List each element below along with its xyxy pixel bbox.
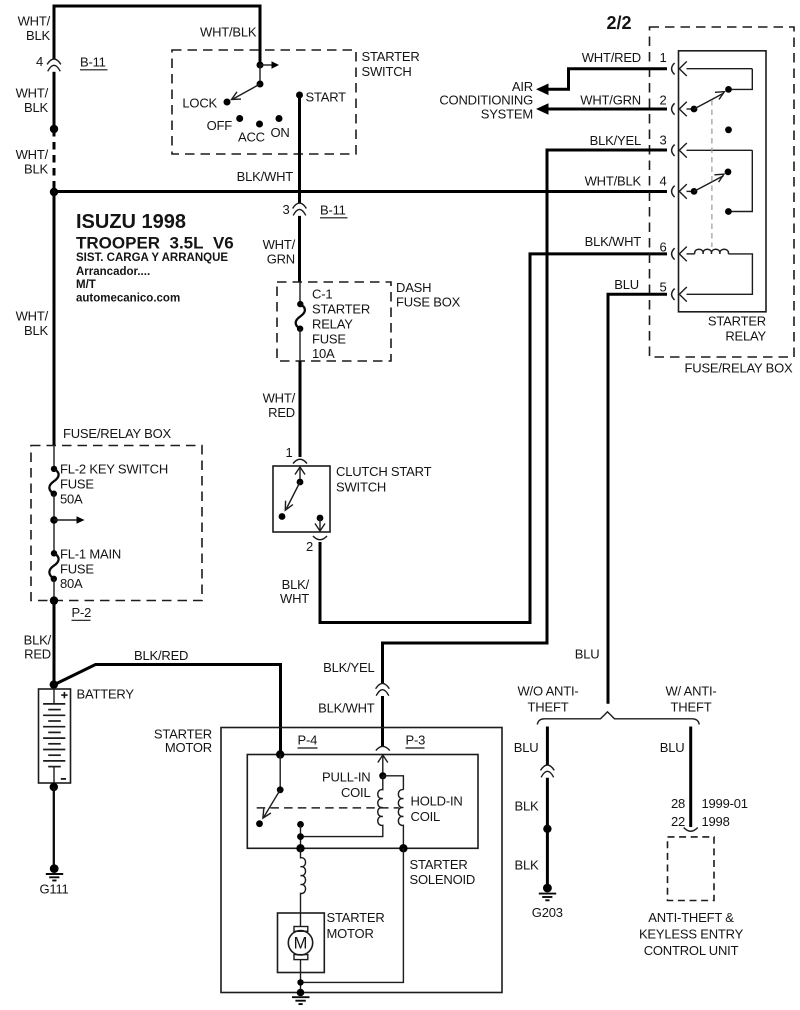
pull-in coil [301,776,383,837]
branch junction dot [50,516,58,524]
relay open contact dot (switch 1) [725,126,732,133]
pin 2 terminal [672,102,687,117]
svg-text:ISUZU 1998: ISUZU 1998 [76,211,186,233]
svg-text:WHT/GRN: WHT/GRN [263,237,296,267]
svg-text:P-4: P-4 [298,733,318,748]
solenoid return wire [301,848,404,982]
connector BLU to BLK (double-arc) [541,765,555,777]
svg-text:1: 1 [659,50,666,65]
fuse C-1 top dot [297,301,303,307]
wire WHT/BLK below connector [53,72,56,129]
connector B-11 pin 3 (double-arc) [293,203,307,215]
svg-text:automecanico.com: automecanico.com [76,293,180,305]
wire WHT/BLK main horizontal to relay pin 4 [54,190,667,193]
ground G203 symbol [539,884,556,901]
relay pin 1 internal circuit [687,68,753,70]
motor M circle [288,931,312,955]
pin 1 terminal [672,61,687,76]
svg-text:BLU: BLU [660,740,685,755]
svg-text:OFF: OFF [207,118,233,133]
fusible link FL-1 bottom dot [51,576,57,582]
svg-text:1999-01: 1999-01 [702,796,748,811]
relay switch 2 common dot [691,188,698,195]
wire WHT/RED from relay pin 1 to A/C [548,69,667,90]
svg-text:BLK/RED: BLK/RED [134,648,188,663]
relay contact dot (pin 3) [725,208,732,215]
battery bottom junction dot [50,783,58,791]
contact OFF dot [236,115,243,122]
svg-text:5: 5 [659,280,666,295]
svg-text:WHT/GRN: WHT/GRN [580,93,641,108]
hold-in coil feed [383,776,404,790]
svg-text:2: 2 [659,93,666,108]
svg-text:BLK: BLK [515,858,540,873]
motor brush top [294,927,308,932]
solenoid inner box [247,755,478,849]
solenoid switch pivot dot [277,786,284,793]
battery box [39,689,71,783]
svg-text:FUSE/RELAY BOX: FUSE/RELAY BOX [63,426,172,441]
fuse C-1 bottom dot [297,326,303,332]
relay switch 1 common dot [691,106,698,113]
wire BLU w/ anti-theft branch [689,727,692,828]
svg-text:B-11: B-11 [80,55,106,70]
svg-text:WHT/BLK: WHT/BLK [200,25,257,40]
contact START dot [296,92,303,99]
motor brush bottom [294,955,308,960]
svg-text:M/T: M/T [76,279,96,291]
relay switch 2 arm arrow [694,174,724,191]
solenoid contact dot upper [297,821,304,828]
svg-text:BLK/WHT: BLK/WHT [280,577,310,606]
anti-theft control unit dashed box [668,837,715,901]
wire inside fuse box lower [299,329,301,361]
clutch bottom female cup [313,536,327,540]
starter motor outer box [221,728,502,993]
relay open contact dot (switch 2) [725,169,732,176]
svg-text:ON: ON [271,125,290,140]
svg-text:BLU: BLU [514,740,539,755]
wire WHT/GRN from relay pin 2 to A/C [548,108,667,111]
pin 5 terminal [672,287,687,302]
svg-text:B-11: B-11 [320,203,346,218]
clutch switch arm arrow [285,482,300,510]
fusible link FL-2 top dot [51,466,57,472]
wire WHT/BLK left vertical down to fuse box [53,192,56,446]
wire BLK to ground [546,778,549,885]
svg-text:2/2: 2/2 [607,13,632,33]
motor output wire [300,960,302,993]
svg-text:G203: G203 [532,905,563,920]
clutch contact dot left [279,513,286,520]
contact LOCK dot [224,99,231,106]
svg-text:BLK/WHT: BLK/WHT [318,701,375,716]
relay armature link (dashed) [711,100,713,247]
svg-text:1: 1 [285,445,292,460]
svg-text:SIST. CARGA Y ARRANQUE: SIST. CARGA Y ARRANQUE [76,252,228,264]
svg-text:LOCK: LOCK [182,96,217,111]
pin 6 terminal [672,247,687,262]
node B-11 label (pin 3) [320,203,348,218]
branch arrow right [260,61,279,68]
solenoid contact dot left [256,820,263,827]
relay coil return to pin 5 [687,254,753,294]
svg-text:START: START [306,90,347,105]
armature field coil [301,848,306,926]
battery minus sign [61,778,66,780]
BLK junction dot [543,825,551,833]
svg-text:1998: 1998 [702,814,730,829]
connector B-11 pin 4 (inline double-arc) [47,59,61,71]
wire WHT/GRN down to dash fuse box [298,216,301,282]
dash fuse box dashed outline [277,282,391,361]
svg-text:BLU: BLU [575,647,600,662]
distribution brace [537,712,699,725]
wire battery to ground G111 [53,787,55,865]
svg-text:STARTERSWITCH: STARTERSWITCH [362,49,420,79]
starter solenoid output dot right [399,844,407,852]
clutch output arrow down [315,518,325,531]
contact ACC dot [256,121,263,128]
solenoid switch arm arrow [263,790,280,818]
wire WHT/RED down to clutch switch [299,361,302,457]
svg-text:W/ ANTI-THEFT: W/ ANTI-THEFT [665,684,716,715]
clutch start switch box [273,466,330,532]
junction dot at main horizontal [50,188,58,196]
svg-text:3: 3 [282,202,289,217]
battery negative stem [53,767,55,783]
clutch pivot dot [297,479,304,486]
solenoid contact drop wire [300,824,302,848]
svg-text:M: M [294,935,308,953]
relay pin 1 internal drop [729,69,753,90]
fuse/relay box dashed outline [650,27,795,357]
wire BLK/WHT from START down [298,95,301,204]
arrow to air conditioning (pin 1) [536,84,549,96]
relay coil feed from pin 6 [687,253,695,255]
chassis junction dot [297,989,305,997]
fuse/relay box dashed outline [31,446,202,601]
node P-4 label [298,733,318,749]
wire inside fuse box segment 2 [53,494,55,554]
wire WHT/BLK dashed segment [53,129,56,192]
svg-text:BLK/YEL: BLK/YEL [323,660,374,675]
svg-text:BLK/YEL: BLK/YEL [590,133,641,148]
svg-text:WHT/BLK: WHT/BLK [585,174,642,189]
svg-text:BLK/WHT: BLK/WHT [237,169,294,184]
P-3 male terminal arrow up [378,755,388,776]
switch stem [259,65,261,84]
solenoid switch stem [279,755,281,790]
svg-text:BLK/RED: BLK/RED [24,633,52,662]
clutch switch female terminal arc [293,459,307,463]
anti-theft unit female cup [684,828,698,832]
relay pin 2 internal circuit [687,108,695,110]
P-3 female terminal arc [376,746,390,750]
svg-text:6: 6 [659,240,666,255]
relay contact dot (pin 1) [725,86,732,93]
ground G111 symbol [46,864,63,880]
wire BLK/YEL from relay pin 3 [383,150,668,684]
starter switch dashed box [172,50,356,154]
svg-text:ACC: ACC [238,130,265,145]
wire inside fuse box segment 3 [53,579,55,601]
svg-text:BATTERY: BATTERY [77,687,135,702]
fusible link FL-1 top dot [51,550,57,556]
pull-in coil junction dot [379,772,386,779]
wire BLK/RED from P-2 to battery [53,601,56,685]
svg-text:WHT/RED: WHT/RED [582,50,641,65]
relay pin 4 internal circuit [687,190,695,192]
relay switch 1 arm arrow [694,92,724,109]
battery plates [43,704,65,767]
svg-text:4: 4 [36,54,43,69]
fusible link FL-2 bottom dot [51,491,57,497]
node P-2 label [72,605,92,620]
svg-text:P-2: P-2 [72,605,92,620]
svg-text:WHT/RED: WHT/RED [263,391,296,421]
svg-text:Arrancador....: Arrancador.... [76,266,150,278]
relay pin 3 internal circuit [687,149,753,151]
junction dot [50,125,58,133]
solenoid plunger link (dashed) [257,807,399,809]
fusible link FL-2 element [49,469,58,494]
battery positive stem [53,689,55,704]
svg-text:P-3: P-3 [406,733,426,748]
pin 4 terminal [672,184,687,199]
svg-text:2: 2 [306,539,313,554]
wire BLU from relay pin 5 [608,294,667,704]
arrow to air conditioning (pin 2) [536,103,549,115]
P-4 junction dot [276,750,284,758]
solenoid contact dot mid [297,833,304,840]
contact ON dot [276,115,283,122]
fuse C-1 element [296,304,305,329]
node P-2 junction dot [50,596,58,604]
wire inside fuse box upper [299,282,301,304]
svg-text:22: 22 [671,814,685,829]
svg-text:3: 3 [659,133,666,148]
connector BLK/YEL to BLK/WHT (double-arc) [376,683,390,695]
hold-in coil [398,790,403,849]
svg-text:ANTI-THEFT &KEYLESS ENTRYCONTR: ANTI-THEFT &KEYLESS ENTRYCONTROL UNIT [639,910,744,958]
wire inside fuse box segment 1 [53,446,55,469]
switch input node dot [257,62,264,69]
wire WHT/BLK top run from B-11 pin 4 to starter switch [54,6,260,65]
clutch contact dot right [317,515,324,522]
svg-text:4: 4 [659,174,666,189]
clutch male terminal arrow up [295,467,305,482]
switch pivot dot [257,81,264,88]
solenoid output junction dot [296,844,304,852]
node P-3 label [406,733,426,749]
branch arrow right [54,516,85,524]
wire BLU w/o anti-theft branch [546,727,549,766]
starter motor box [278,913,325,973]
battery top junction dot [50,680,58,688]
motor return junction dot [297,979,303,985]
wire BLK/WHT from clutch to relay pin 6 [320,254,667,623]
battery plus sign [61,692,67,698]
svg-text:BLK: BLK [515,799,540,814]
svg-text:G111: G111 [40,882,69,897]
svg-text:28: 28 [671,796,685,811]
svg-text:FUSE/RELAY BOX: FUSE/RELAY BOX [685,361,794,376]
node B-11 label [80,55,108,70]
switch arm arrow to LOCK [232,84,261,100]
starter relay solid box [679,51,767,312]
svg-text:BLU: BLU [614,277,639,292]
relay coil [695,249,729,254]
wire BLK/RED branch to starter motor P-4 [55,665,281,755]
relay pin 3 internal drop [728,150,752,211]
svg-text:STARTERSOLENOID: STARTERSOLENOID [410,857,476,887]
svg-text:BLK/WHT: BLK/WHT [585,234,642,249]
wire BLK/WHT into P-3 [381,696,384,746]
svg-text:TROOPER 3.5L V6: TROOPER 3.5L V6 [76,234,234,253]
pin 3 terminal [672,143,687,158]
fusible link FL-1 element [49,553,58,579]
ground starter motor symbol [292,997,310,1004]
